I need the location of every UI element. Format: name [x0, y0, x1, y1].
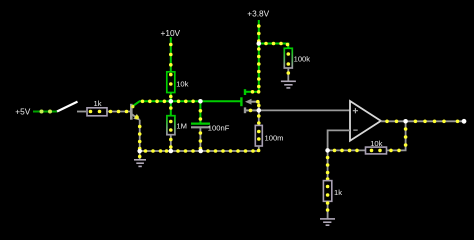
- svg-text:+3.8V: +3.8V: [247, 8, 269, 18]
- wire mosfet source to 100m: [257, 110, 261, 125]
- wire feedback node to 10k: [328, 149, 366, 153]
- svg-text:1k: 1k: [94, 99, 102, 108]
- label 100k (R4): [294, 55, 311, 64]
- wire +10V down: [169, 37, 173, 72]
- label 10k (R2): [176, 80, 188, 89]
- wire mosfet source to op-amp +: [259, 109, 350, 111]
- node +5V label: [15, 106, 30, 116]
- wire op-amp inverting input: [328, 130, 350, 150]
- wire R1 to Q1 base: [106, 110, 131, 114]
- switch S1 (open): [57, 102, 78, 112]
- wire bottom rail: [140, 149, 259, 153]
- mosfet M1: [241, 89, 260, 113]
- junction feedback node: [325, 148, 330, 153]
- wire emitter down: [138, 120, 142, 151]
- op-amp U1: [350, 101, 381, 141]
- wire +3.8V down: [257, 20, 261, 92]
- ground G3: [320, 219, 335, 225]
- ground G1: [134, 151, 146, 166]
- transistor Q1 NPN: [131, 101, 140, 120]
- label 1k (R1): [94, 99, 102, 108]
- wire R2 to rail: [169, 93, 173, 102]
- wire 1M to bottom rail: [169, 135, 173, 151]
- junction capacitor/bottom rail: [198, 149, 203, 154]
- svg-text:+5V: +5V: [15, 106, 30, 116]
- wire feedback node to 1k: [326, 150, 330, 180]
- resistor R3 1M: [167, 116, 175, 135]
- svg-text:10k: 10k: [176, 80, 188, 89]
- resistor R6 10k feedback: [366, 147, 387, 154]
- svg-text:+10V: +10V: [160, 28, 180, 38]
- svg-text:100k: 100k: [294, 55, 311, 64]
- junction 1M/bottom rail: [169, 149, 174, 154]
- node +3.8V label: [247, 8, 269, 18]
- node output terminal: [462, 119, 467, 124]
- svg-text:1M: 1M: [176, 122, 187, 131]
- ground G2: [281, 81, 296, 88]
- wire 100k to ground: [287, 68, 291, 81]
- label 1k (R7): [334, 188, 342, 197]
- junction emitter/ground: [137, 149, 142, 154]
- wire rail to capacitor: [199, 101, 203, 123]
- svg-text:10k: 10k: [370, 139, 382, 148]
- label 100m (R5): [265, 134, 284, 143]
- junction mosfet source node: [257, 108, 262, 113]
- junction output/feedback: [403, 119, 408, 124]
- junction rail/capacitor: [198, 99, 203, 104]
- node +10V label: [160, 28, 180, 38]
- capacitor C1 100nF: [191, 124, 210, 128]
- svg-text:100nF: 100nF: [208, 124, 230, 133]
- label 1M (R3): [176, 122, 187, 131]
- svg-text:100m: 100m: [265, 134, 284, 143]
- wire op-amp output: [381, 120, 464, 124]
- label 10k (R6): [370, 139, 382, 148]
- svg-text:1k: 1k: [334, 188, 342, 197]
- wire capacitor to bottom rail: [199, 127, 203, 151]
- wire 1k to ground: [326, 201, 330, 218]
- wire 100m to bottom rail: [257, 146, 261, 152]
- wire switch to resistor 1k: [77, 111, 86, 113]
- junction +3.8V/100k: [257, 41, 262, 46]
- wire collector rail: [139, 100, 242, 104]
- resistor R4 100k: [284, 48, 292, 68]
- resistor R1 1k: [87, 108, 107, 116]
- wire to 100k: [259, 42, 290, 49]
- label 100nF (C1): [208, 124, 230, 133]
- wire +5V to switch: [33, 110, 57, 114]
- resistor R2 10k: [167, 72, 175, 93]
- resistor R5 100m: [255, 125, 262, 146]
- resistor R7 1k: [323, 181, 331, 202]
- junction rail/10k/1M: [169, 99, 174, 104]
- wire rail to 1M: [169, 101, 173, 115]
- wire 10k to output node: [387, 121, 408, 152]
